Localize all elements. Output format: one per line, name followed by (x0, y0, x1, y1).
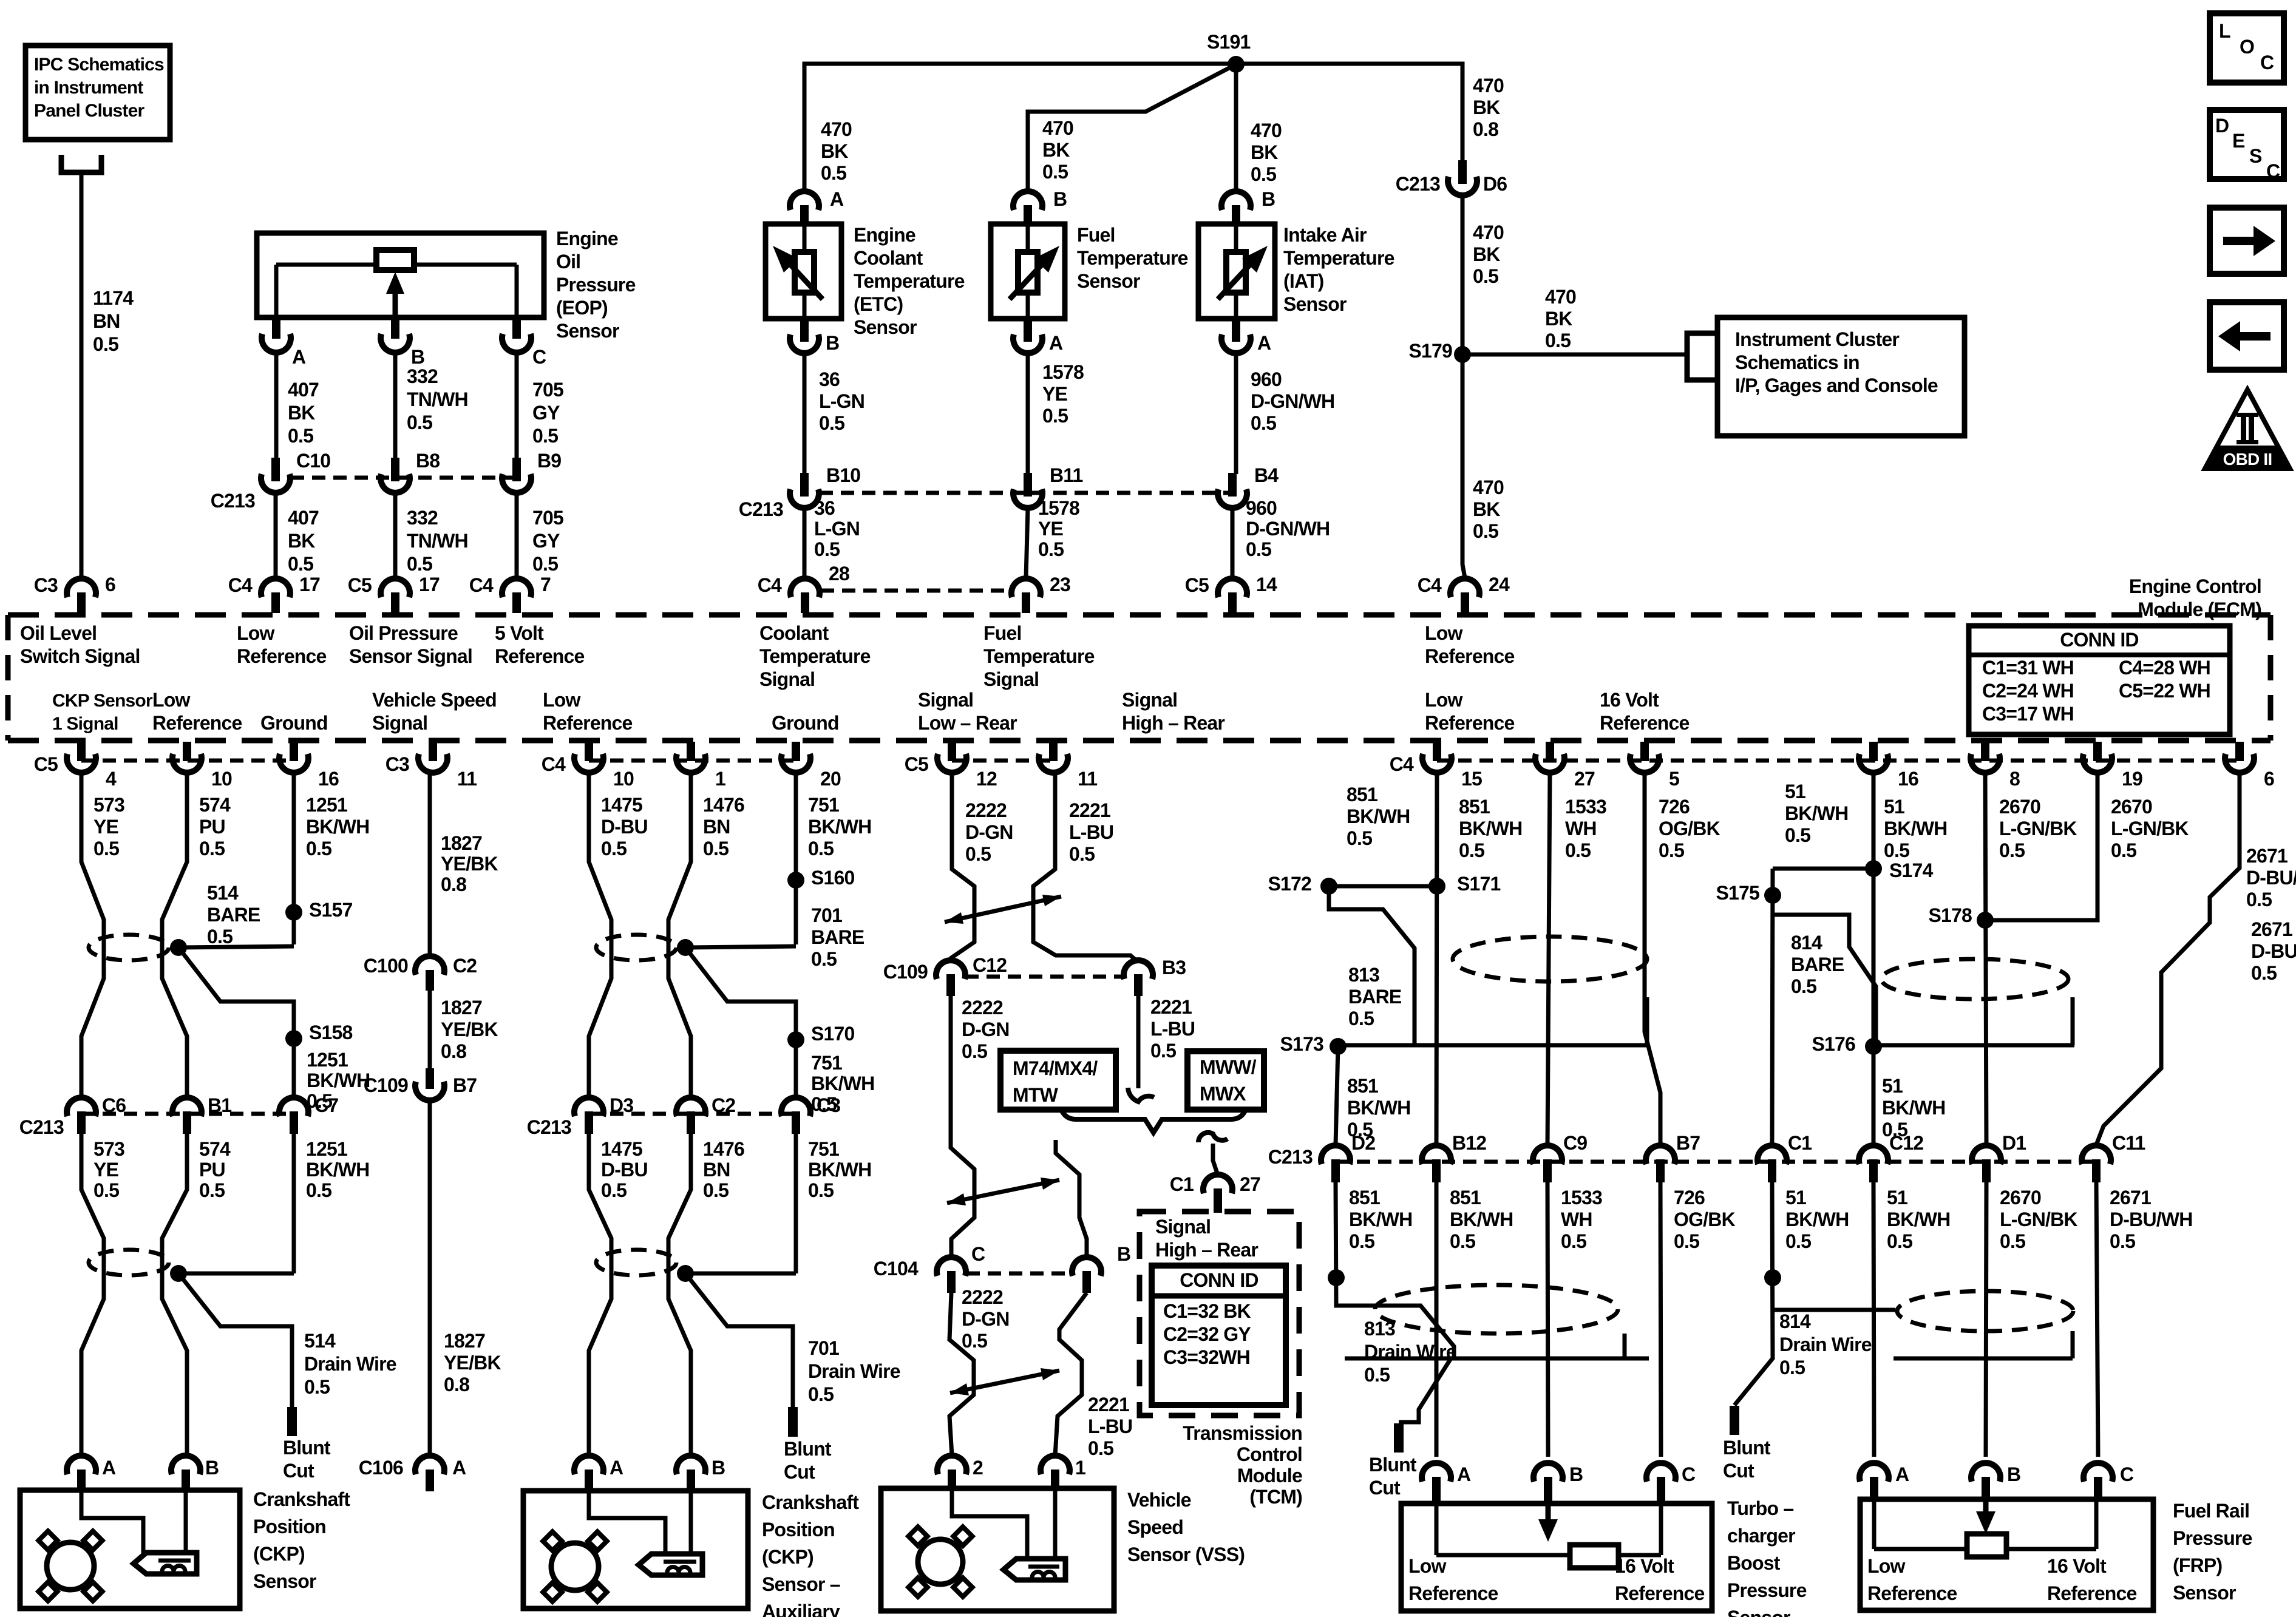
connector ECM C4 pin 24 (top row) (1450, 578, 1479, 613)
svg-text:C213: C213 (1268, 1146, 1313, 1168)
svg-text:MWX: MWX (1200, 1083, 1246, 1105)
svg-text:C1: C1 (1170, 1173, 1194, 1195)
label 2671 D-BU/WH 0.5 (below right C213 row) (2110, 1187, 2193, 1252)
svg-text:C3=32WH: C3=32WH (1163, 1346, 1250, 1368)
svg-text:Oil: Oil (556, 251, 580, 273)
twisted pair shield (CKP pair upper) (89, 935, 169, 960)
label 470 BK 0.5 (below D6) (1473, 222, 1504, 287)
svg-text:Reference: Reference (1600, 712, 1690, 734)
Transmission Control Module (TCM) dashed box (1140, 1212, 1299, 1415)
svg-text:BK/WH: BK/WH (1450, 1209, 1513, 1230)
IPC Schematics callout box (25, 46, 170, 140)
label C213 (sensor row) (739, 498, 783, 520)
svg-text:1533: 1533 (1565, 796, 1606, 818)
svg-text:2222: 2222 (962, 997, 1003, 1019)
svg-text:Reference: Reference (1425, 712, 1515, 734)
splice S175 (1764, 887, 1781, 904)
wire 51 C12 to FRP A (1873, 1182, 1874, 1457)
svg-text:27: 27 (1240, 1173, 1260, 1195)
connector C104 dashed line (966, 1272, 1071, 1276)
svg-text:0.5: 0.5 (532, 425, 558, 447)
svg-text:0.5: 0.5 (1779, 1357, 1805, 1378)
blunt cut (813 drain) (1394, 1423, 1404, 1453)
label 1533 WH 0.5 (1565, 796, 1606, 861)
label 813 Drain Wire 0.5 (1364, 1318, 1456, 1386)
label 2671 D-BU/WH 0.5 (pin6) (2246, 845, 2296, 910)
svg-text:851: 851 (1347, 784, 1377, 805)
svg-text:36: 36 (814, 497, 835, 519)
svg-text:YE: YE (1042, 383, 1068, 405)
wire 332 TN/WH segment (393, 353, 398, 459)
connector C109 dashed line (965, 975, 1124, 979)
svg-text:0.8: 0.8 (441, 1040, 466, 1062)
wire 2221 to TCM (1213, 1144, 1218, 1175)
svg-text:0.5: 0.5 (1088, 1437, 1113, 1459)
wire 574 PU upper (162, 773, 187, 1099)
CKP reluctor symbol (38, 1531, 102, 1601)
svg-text:2222: 2222 (962, 1286, 1003, 1308)
label 2221 L-BU 0.5 (1069, 799, 1113, 865)
label S191 (1207, 31, 1251, 53)
connector C4 dashed link (bottom row) (1437, 759, 2240, 763)
svg-text:Module (ECM): Module (ECM) (2138, 598, 2261, 620)
shield bottom bus (turbo upper) (1336, 1043, 1647, 1048)
svg-text:470: 470 (1473, 476, 1504, 498)
connector C213 dashed line (CKP row) (81, 1112, 294, 1116)
label 51 BK/WH 0.5 (pin16) (1884, 796, 1947, 861)
shield junction 813 (lower) (1328, 1269, 1345, 1286)
wire 851 BK/WH from ECM 15 to C213 B12 (1436, 773, 1437, 1145)
svg-text:Vehicle Speed: Vehicle Speed (372, 689, 497, 711)
label 751 BK/WH 0.5 (lower) (808, 1138, 871, 1201)
svg-text:D-BU/WH: D-BU/WH (2251, 940, 2296, 962)
label 2670 L-GN/BK 0.5 (pin19) (2111, 796, 2189, 861)
svg-text:0.5: 0.5 (1246, 538, 1271, 560)
svg-text:L-BU: L-BU (1088, 1415, 1132, 1437)
wire 2221 L-BU resumed (1056, 1140, 1087, 1258)
drain link to 751 wire (lower) (685, 1272, 796, 1276)
svg-text:BK/WH: BK/WH (808, 816, 871, 838)
twist crossover arrow (lower) (950, 1368, 1059, 1395)
svg-text:C213: C213 (527, 1116, 571, 1138)
svg-text:C213: C213 (19, 1116, 64, 1138)
label 5 Volt Reference (495, 622, 585, 667)
svg-text:0.5: 0.5 (532, 553, 558, 575)
ETC thermistor element (773, 224, 823, 319)
svg-text:A: A (1895, 1463, 1909, 1485)
wire 851 D2 to shield (lower) (1336, 1182, 1454, 1358)
svg-text:Module: Module (1237, 1465, 1302, 1486)
svg-text:Temperature: Temperature (1077, 247, 1188, 269)
svg-text:0.5: 0.5 (601, 1179, 627, 1201)
svg-text:C213: C213 (739, 498, 783, 520)
shield junction (CKP pair lower) (170, 1265, 187, 1282)
svg-text:2671: 2671 (2251, 918, 2292, 940)
twisted pair shield (CKP pair lower) (89, 1250, 169, 1275)
splice S173 (1330, 1038, 1347, 1055)
svg-text:S175: S175 (1716, 882, 1759, 904)
twisted bundle shield (FRP upper) (1881, 959, 2068, 999)
svg-text:701: 701 (808, 1337, 839, 1359)
svg-text:A: A (1049, 332, 1063, 354)
svg-text:BK: BK (288, 530, 315, 552)
svg-text:C2: C2 (712, 1094, 735, 1116)
label 1251 BK/WH 0.5 (lower) (306, 1138, 369, 1201)
svg-text:51: 51 (1882, 1075, 1903, 1097)
svg-text:Cut: Cut (1723, 1460, 1754, 1482)
connector 2 at VSS (937, 1456, 966, 1490)
label Engine Coolant Temperature (ETC) Sensor (854, 224, 965, 338)
connector C213 B7 (1646, 1145, 1675, 1182)
blunt cut (814 drain) (1730, 1406, 1739, 1435)
label C213 (CKP aux row) (527, 1116, 571, 1138)
svg-text:D-GN/WH: D-GN/WH (1251, 390, 1334, 412)
label 1578 YE 0.5 (lower) (1038, 497, 1079, 560)
svg-text:C2=32 GY: C2=32 GY (1163, 1323, 1251, 1345)
svg-text:Signal: Signal (918, 689, 973, 711)
svg-text:CONN ID: CONN ID (1180, 1269, 1258, 1291)
wire 1533 WH upper (1547, 773, 1550, 1145)
label 1533 WH 0.5 (below right C213 row) (1561, 1187, 1602, 1252)
svg-text:S178: S178 (1928, 904, 1972, 926)
svg-text:470: 470 (1473, 222, 1504, 243)
CKP aux internal wire A (589, 1492, 665, 1555)
svg-text:Fuel: Fuel (983, 622, 1022, 644)
label C109 B7 (364, 1074, 408, 1096)
svg-text:0.5: 0.5 (1364, 1364, 1390, 1386)
svg-text:Engine: Engine (854, 224, 915, 246)
label 851 BK/WH 0.5 (pin15) (1459, 796, 1522, 861)
svg-text:332: 332 (407, 507, 438, 529)
svg-text:0.5: 0.5 (288, 553, 313, 575)
svg-text:Vehicle: Vehicle (1127, 1489, 1191, 1511)
svg-text:0.5: 0.5 (1473, 520, 1498, 542)
svg-text:8: 8 (2009, 768, 2020, 790)
svg-text:1578: 1578 (1038, 497, 1079, 519)
label Ground (row2 a) (260, 712, 328, 734)
svg-text:814: 814 (1779, 1310, 1811, 1332)
connector ECM C4 pin 20 (bottom row) (781, 742, 810, 773)
wire 407 BK segment (274, 353, 279, 459)
svg-text:2221: 2221 (1088, 1394, 1129, 1415)
wire 705 GY lower segment (515, 493, 519, 578)
wire 470 BK fuel branch (1028, 64, 1236, 191)
svg-text:470: 470 (1545, 286, 1576, 308)
ECM box right dashed edge (2268, 615, 2274, 741)
label C109 C12 B3 (883, 961, 928, 983)
label Crankshaft Position (CKP) Sensor Auxiliary (762, 1491, 859, 1617)
wire 2221 L-BU upper (1033, 773, 1138, 962)
svg-text:BN: BN (703, 816, 730, 838)
svg-text:BK: BK (1473, 97, 1500, 118)
label Intake Air Temperature (IAT) Sensor (1283, 224, 1394, 315)
connector C213 C11 (2082, 1145, 2111, 1182)
splice S174 (1865, 860, 1882, 877)
icon DESC box (2210, 110, 2284, 179)
svg-text:BK: BK (821, 140, 848, 162)
blunt cut (514 drain) (287, 1407, 297, 1436)
label S176 (1812, 1033, 1855, 1055)
svg-text:11: 11 (457, 768, 477, 790)
wire 751 BK/WH upper (794, 773, 798, 944)
label 701 Drain Wire 0.5 (808, 1337, 900, 1405)
twist crossover arrow (upper) (945, 895, 1061, 924)
svg-text:B: B (2007, 1463, 2020, 1485)
svg-text:701: 701 (811, 904, 842, 926)
Crankshaft Position (CKP) Sensor box (20, 1490, 240, 1609)
connector C213 C6 (67, 1097, 96, 1134)
svg-text:Engine: Engine (556, 228, 618, 249)
svg-text:MWW/: MWW/ (1200, 1056, 1257, 1078)
svg-text:36: 36 (819, 368, 840, 390)
EOP pin A connector (262, 316, 291, 353)
svg-text:C5: C5 (348, 574, 372, 596)
svg-text:Drain Wire: Drain Wire (1364, 1341, 1456, 1363)
svg-text:407: 407 (288, 507, 319, 529)
VSS internal wire 2 (952, 1490, 1027, 1559)
wire 851 branch to S172 (1329, 884, 1437, 889)
svg-text:L-GN/BK: L-GN/BK (1999, 818, 2077, 839)
VSS pickup coil symbol (1004, 1559, 1065, 1580)
svg-text:Instrument Cluster: Instrument Cluster (1735, 328, 1899, 350)
svg-text:A: A (830, 188, 844, 210)
connector C100 C2 (415, 956, 444, 991)
svg-text:M74/MX4/: M74/MX4/ (1013, 1057, 1098, 1079)
svg-text:0.8: 0.8 (1473, 118, 1498, 140)
svg-text:0.5: 0.5 (1042, 405, 1068, 427)
svg-text:B: B (411, 346, 424, 368)
svg-text:D-GN: D-GN (965, 821, 1013, 843)
svg-text:D3: D3 (610, 1094, 633, 1116)
svg-text:Sensor: Sensor (1077, 270, 1140, 292)
wire 751 BK/WH to C213 C3 (794, 1040, 798, 1099)
svg-text:S170: S170 (811, 1023, 855, 1045)
svg-text:Signal: Signal (983, 668, 1039, 690)
IAT thermistor element (1218, 224, 1268, 319)
connector ECM C4 pin 10 (bottom row) (574, 742, 603, 773)
svg-text:S157: S157 (309, 899, 353, 921)
svg-text:C5: C5 (905, 753, 928, 775)
svg-text:BK/WH: BK/WH (1459, 818, 1522, 839)
svg-text:B: B (826, 332, 839, 354)
connector C213 B4 (1218, 473, 1247, 508)
connector A at CKP aux sensor (574, 1456, 603, 1491)
svg-text:0.5: 0.5 (1038, 538, 1064, 560)
svg-text:0.5: 0.5 (1150, 1040, 1176, 1062)
svg-text:A: A (1457, 1463, 1471, 1485)
svg-text:S179: S179 (1408, 340, 1452, 362)
svg-text:B10: B10 (826, 464, 860, 486)
svg-text:Low – Rear: Low – Rear (918, 712, 1017, 734)
label 751 BK/WH 0.5 (808, 794, 871, 859)
svg-text:Reference: Reference (152, 712, 242, 734)
label S171 (1457, 873, 1501, 895)
label 470 BK 0.5 (IAT) (1251, 120, 1282, 185)
label 574 PU 0.5 (199, 794, 231, 859)
label Blunt Cut (813) (1369, 1454, 1417, 1499)
svg-text:C5: C5 (1185, 574, 1209, 596)
svg-text:960: 960 (1251, 368, 1282, 390)
svg-text:1251: 1251 (306, 1138, 347, 1160)
wire 51 branch to S175 (1773, 867, 1873, 871)
svg-text:Reference: Reference (495, 645, 585, 667)
connector C213 dashed line (CKP aux row) (589, 1112, 796, 1116)
svg-text:BARE: BARE (1348, 986, 1402, 1008)
connector C109 B3 (1124, 960, 1153, 996)
svg-text:B7: B7 (453, 1074, 477, 1096)
label Fuel Temperature Signal (983, 622, 1095, 690)
Vehicle Speed Sensor (VSS) box (881, 1488, 1114, 1611)
wire 2671 from ECM 6 to C213 C11 (2096, 773, 2240, 1145)
svg-text:51: 51 (1884, 796, 1904, 818)
svg-text:Pressure: Pressure (2173, 1527, 2252, 1549)
svg-text:TN/WH: TN/WH (407, 388, 468, 410)
svg-text:51: 51 (1785, 781, 1805, 802)
splice S171 (1428, 878, 1445, 895)
connector C213 D1 (1972, 1145, 2001, 1182)
label 407 BK 0.5 (288, 379, 319, 447)
drain link to 751 wire (685, 946, 796, 947)
svg-text:51: 51 (1887, 1187, 1907, 1209)
svg-text:0.5: 0.5 (821, 162, 846, 184)
svg-text:C4=28 WH: C4=28 WH (2119, 657, 2210, 679)
connector B at turbo boost sensor (1533, 1463, 1563, 1504)
svg-text:C3: C3 (817, 1094, 840, 1116)
svg-text:0.5: 0.5 (1349, 1230, 1374, 1252)
connector ECM C4 pin 6 (bottom row) (2225, 742, 2254, 773)
label Low Reference (FRP) (1867, 1555, 1957, 1604)
svg-text:B: B (205, 1457, 219, 1479)
svg-text:14: 14 (1256, 574, 1277, 595)
EOP wiper arrow (386, 272, 404, 317)
svg-text:B: B (712, 1457, 725, 1479)
icon DESC letters (2215, 115, 2280, 182)
svg-text:0.5: 0.5 (288, 425, 313, 447)
svg-text:D1: D1 (2002, 1132, 2026, 1154)
blunt cut (701 drain) (788, 1407, 798, 1437)
svg-text:Cut: Cut (283, 1460, 314, 1482)
svg-text:Drain Wire: Drain Wire (1779, 1334, 1872, 1355)
svg-text:2: 2 (973, 1457, 983, 1479)
label 1476 BN 0.5 (lower) (703, 1138, 744, 1201)
label Engine Control Module (ECM) (2129, 575, 2261, 620)
svg-text:S173: S173 (1280, 1033, 1323, 1055)
svg-text:E: E (2232, 130, 2245, 152)
svg-text:0.5: 0.5 (407, 412, 432, 433)
label C213 (CKP row) (19, 1116, 64, 1138)
icon right-arrow (2223, 226, 2275, 256)
svg-text:751: 751 (808, 1138, 839, 1160)
svg-text:16 Volt: 16 Volt (1600, 689, 1659, 711)
svg-text:7: 7 (540, 574, 551, 595)
svg-text:BK/WH: BK/WH (1785, 1209, 1849, 1230)
svg-text:Sensor: Sensor (854, 316, 917, 338)
twist crossover arrow (mid) (947, 1178, 1059, 1205)
svg-text:BARE: BARE (811, 926, 864, 948)
label 36 L-GN 0.5 (819, 368, 864, 434)
svg-text:332: 332 (407, 365, 438, 387)
svg-text:S158: S158 (309, 1022, 353, 1043)
svg-text:BK/WH: BK/WH (1887, 1209, 1950, 1230)
svg-text:C: C (2120, 1463, 2134, 1485)
Turbocharger Boost Pressure Sensor box (1401, 1503, 1712, 1611)
icon LOC letters (2219, 20, 2274, 73)
wire 726 OG/BK upper (1645, 773, 1660, 1145)
svg-text:Temperature: Temperature (759, 645, 871, 667)
svg-text:751: 751 (808, 794, 839, 816)
svg-text:0.5: 0.5 (811, 948, 837, 970)
svg-text:0.5: 0.5 (304, 1376, 330, 1398)
svg-text:Pressure: Pressure (556, 274, 636, 296)
svg-text:BK: BK (1545, 308, 1572, 330)
label 1475 D-BU 0.5 (lower) (601, 1138, 648, 1201)
svg-text:BK/WH: BK/WH (306, 1159, 369, 1181)
svg-text:C4: C4 (758, 574, 782, 596)
svg-text:L-GN: L-GN (819, 390, 864, 412)
icon left-arrow box (2210, 302, 2284, 370)
svg-text:S191: S191 (1207, 31, 1251, 53)
svg-text:Fuel: Fuel (1077, 224, 1115, 246)
svg-text:Sensor: Sensor (1283, 293, 1347, 315)
connector C104 B (1072, 1257, 1101, 1293)
svg-text:B1: B1 (208, 1094, 231, 1116)
label Ground (row2 b) (772, 712, 839, 734)
connector ECM C5 pin 10 (bottom row) (172, 742, 202, 773)
svg-text:0.5: 0.5 (1561, 1230, 1586, 1252)
svg-text:24: 24 (1489, 574, 1510, 595)
label 2670 L-GN/BK 0.5 (below right C213 row) (2000, 1187, 2077, 1252)
svg-text:Sensor –: Sensor – (762, 1573, 840, 1595)
svg-text:L-BU: L-BU (1069, 821, 1113, 843)
label Fuel Rail Pressure (FRP) Sensor (2173, 1500, 2252, 1604)
drain wire 813 to blunt cut (1399, 1358, 1451, 1422)
svg-text:1251: 1251 (306, 794, 347, 816)
label 16 Volt Reference (FRP) (2047, 1555, 2137, 1604)
svg-text:574: 574 (199, 1138, 231, 1160)
svg-text:D-GN: D-GN (962, 1308, 1010, 1330)
label Low Reference (turbo) (1408, 1555, 1498, 1604)
connector C213 B10 (790, 473, 819, 508)
ECM CONN ID table header line (1969, 653, 2230, 657)
label Vehicle Speed Sensor (VSS) (1127, 1489, 1245, 1565)
svg-text:C: C (971, 1243, 985, 1265)
svg-text:Reference: Reference (1408, 1582, 1498, 1604)
svg-text:Sensor (VSS): Sensor (VSS) (1127, 1544, 1245, 1565)
svg-text:Temperature: Temperature (1283, 247, 1394, 269)
svg-text:Low: Low (152, 689, 190, 711)
svg-text:0.5: 0.5 (2110, 1230, 2135, 1252)
label Signal High - Rear (1122, 689, 1224, 734)
label M74/MX4/MTW (1013, 1057, 1098, 1106)
label CKP Sensor 1 Signal (52, 691, 153, 734)
svg-text:1533: 1533 (1561, 1187, 1602, 1209)
svg-text:C6: C6 (102, 1094, 126, 1116)
connector ECM C4 pin 5 (bottom row) (1630, 742, 1659, 773)
splice S176 (1865, 1038, 1882, 1055)
wire 751 BK/WH lower (794, 1134, 798, 1273)
svg-text:0.5: 0.5 (814, 538, 840, 560)
svg-text:0.5: 0.5 (306, 1179, 331, 1201)
svg-text:0.5: 0.5 (1887, 1230, 1912, 1252)
svg-text:Oil Pressure: Oil Pressure (349, 622, 458, 644)
svg-text:Sensor: Sensor (253, 1570, 316, 1592)
connector B at ETC bottom (790, 317, 819, 353)
label Engine Oil Pressure (EOP) Sensor (556, 228, 636, 342)
svg-text:BK: BK (1473, 243, 1500, 265)
svg-text:Reference: Reference (1425, 645, 1515, 667)
wire 573 YE upper (81, 773, 104, 1099)
svg-text:Sensor: Sensor (556, 320, 619, 342)
